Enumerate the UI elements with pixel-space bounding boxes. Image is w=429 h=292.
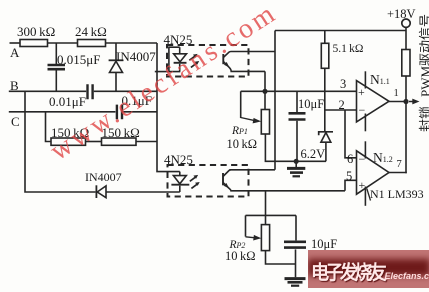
label 4N25 upper <box>164 32 193 48</box>
wire line B right segment <box>94 90 157 92</box>
wire 10uF-2 bottom <box>295 249 297 277</box>
N1.1 plus sign <box>358 85 365 100</box>
label 150k right <box>102 125 140 141</box>
wire terminal to rail <box>405 27 407 49</box>
label 10k lower <box>225 249 256 264</box>
wire pull-up down to N1.2 output <box>405 76 407 173</box>
resistor pull-up box <box>402 50 410 77</box>
terminal +18V circle <box>402 19 410 27</box>
N1.1 power stub bottom <box>364 114 366 132</box>
wire reference to pin 2 <box>325 109 357 111</box>
N1.2 power stub bottom <box>364 187 366 206</box>
wire Rp2 top terminal <box>265 191 267 225</box>
vertical label blocking <box>415 106 429 132</box>
opto2 emitter arrow <box>224 183 230 189</box>
wire node down to Rp1 <box>264 91 266 109</box>
wire diode row to LED2 <box>106 191 180 193</box>
N1.1 minus sign <box>359 103 366 118</box>
N1.2 power stub top <box>364 141 366 158</box>
pin 1 label <box>394 88 399 99</box>
diode IN4007 upper (cathode bar) <box>109 59 124 61</box>
PWM output arrow <box>409 101 413 103</box>
wire line C right segment <box>123 111 157 113</box>
LED1 anode lead <box>179 47 181 54</box>
diode IN4007 lower (triangle) <box>97 186 106 198</box>
label N1 LM393 <box>370 187 424 202</box>
N1 label leader line <box>367 189 371 201</box>
LED1 cathode bar <box>174 62 187 64</box>
wire Rp2 bottom to ground 2 <box>266 251 296 264</box>
label 10k upper <box>227 137 258 152</box>
LED1 light arrow 1 <box>189 56 195 61</box>
watermark logo box bottom right <box>308 250 429 288</box>
opto2 phototransistor base bar <box>222 173 224 185</box>
wire 5.1k bottom to zener <box>324 68 326 131</box>
label 300k <box>17 24 55 40</box>
Rp1 wiper arrow <box>241 118 255 121</box>
label IN4007 upper <box>116 49 156 65</box>
capacitor C 0.015uF plates <box>48 65 66 69</box>
label Rp2 <box>230 239 246 251</box>
watermark diagonal elecfans <box>45 0 283 166</box>
wire N1.1 output <box>389 101 406 103</box>
LED2 light arrow 1 <box>190 177 196 182</box>
LED2 cathode lead <box>179 186 181 192</box>
opto1 phototransistor base bar <box>222 54 224 64</box>
LED2 triangle <box>173 176 186 184</box>
node junction dot (opto1 emitter / pin3 net) <box>262 89 267 94</box>
wire pin 5 riser <box>345 180 357 191</box>
wire line B left segment <box>9 90 86 92</box>
LED1 cathode lead <box>179 64 181 72</box>
ground symbol 2 bars <box>285 277 306 280</box>
wire N1.2 output <box>389 172 406 175</box>
wire zener bottom to ground rail <box>325 142 327 161</box>
power rail +18V <box>275 30 406 32</box>
wire Rp2 wiper riser <box>245 215 247 236</box>
N1.2 plus sign <box>359 178 366 193</box>
wire LED1 left loop <box>169 47 180 71</box>
node junction dot (output node) <box>403 99 408 104</box>
wire 5.1k top to rail <box>324 31 326 44</box>
wire emitter1 drop to node <box>264 71 266 91</box>
wire 0.015uF top drop <box>55 43 57 64</box>
capacitor 0.01uF plates <box>88 84 93 99</box>
wire 150k row left riser <box>46 112 52 142</box>
wire diode D1 bottom drop to line B <box>115 72 117 91</box>
node B label <box>10 78 19 94</box>
pin 2 label <box>339 98 345 113</box>
wire 10uF-1 bottom to ground rail <box>296 121 298 162</box>
resistor 150k box 1 <box>51 138 86 145</box>
label IN4007 lower <box>85 170 122 185</box>
capacitor 10uF-1 plates <box>289 113 306 119</box>
wire 10uF-1 top <box>296 91 298 112</box>
label 0.01uF <box>49 94 86 110</box>
LED2 anode lead <box>179 172 181 176</box>
node A label <box>10 45 19 61</box>
wire vertical x25 from B down <box>25 91 95 192</box>
potentiometer Rp2 box <box>261 225 269 251</box>
node C label <box>11 114 20 130</box>
wire A between resistors <box>48 42 78 44</box>
node junction dot (ground node) <box>294 159 299 164</box>
label N1.2 <box>373 150 393 166</box>
resistor 24k box <box>78 40 106 47</box>
label 150k left <box>51 125 89 141</box>
wire diode D1 top drop <box>115 43 117 60</box>
wire 10uF-2 top <box>295 215 297 240</box>
capacitor 10uF-2 plates <box>284 242 306 248</box>
op-amp N1.2 triangle <box>357 151 390 194</box>
wire big vertical from A corner down to LED2 row <box>157 43 180 172</box>
ground symbol 1 bars <box>287 167 305 170</box>
wire Rp2 wiper jog <box>246 214 297 216</box>
wire between 150k resistors <box>86 141 102 143</box>
LED1 triangle <box>174 54 187 62</box>
label 5.1k <box>333 43 364 55</box>
wire Rp1 bottom to ground rail <box>265 134 326 161</box>
wire reference branch to pin 6 <box>345 110 357 158</box>
pin 3 label <box>340 77 346 92</box>
label 0.1uF <box>122 93 152 109</box>
wire LED1 bottom rail <box>155 71 181 73</box>
resistor 5.1k box <box>321 43 329 68</box>
N1.1 power stub top <box>364 71 366 88</box>
LED1 light arrow 2 <box>191 63 197 68</box>
label Rp1 <box>232 125 248 137</box>
label +18V <box>387 7 416 22</box>
opto2 collector <box>223 170 231 177</box>
LED2 cathode bar <box>171 184 189 186</box>
label 6.2V <box>301 147 326 162</box>
resistor 300k box <box>20 40 48 47</box>
capacitor 0.1uF plates <box>117 105 122 120</box>
potentiometer Rp1 box <box>261 110 269 135</box>
opto2 emitter <box>223 183 345 191</box>
label 0.015uF <box>57 52 100 68</box>
wire collector rail vertical x275 <box>274 31 276 170</box>
label 10uF lower <box>311 237 337 252</box>
opto1 emitter <box>223 62 265 72</box>
ground symbol 1 stem <box>295 161 297 167</box>
wire line C left segment <box>9 111 116 113</box>
resistor 150k box 2 <box>102 138 137 145</box>
pin 7 label <box>397 159 402 170</box>
pin 5 label <box>346 169 352 184</box>
wire 150k row to big vertical <box>136 141 157 143</box>
zener 6.2V triangle <box>321 133 331 143</box>
wire signal node to pin 3 <box>241 90 357 92</box>
optocoupler 4N25 dashed box 2 <box>168 165 249 197</box>
wire 0.015uF bottom drop to line B <box>55 71 57 92</box>
LED2 light arrow 2 <box>191 184 197 189</box>
label 10uF upper <box>298 97 324 112</box>
label 24k <box>75 24 107 40</box>
wire Rp1 wiper riser <box>240 91 242 118</box>
wire A to corner <box>106 42 158 44</box>
Rp2 wiper arrow <box>246 236 255 239</box>
zener 6.2V bar <box>319 132 333 136</box>
opto1 collector <box>223 52 275 58</box>
diode IN4007 lower (cathode bar) <box>95 185 97 198</box>
optocoupler 4N25 dashed box 1 <box>167 45 249 77</box>
diode IN4007 upper (triangle) <box>110 61 123 72</box>
N1.2 minus sign <box>359 152 366 167</box>
wire opto2 collector horizontal <box>230 169 276 171</box>
label N1.1 <box>370 72 390 88</box>
opto1 emitter arrow <box>224 62 230 68</box>
pin 6 label <box>347 152 353 167</box>
label 4N25 lower <box>164 152 193 168</box>
wire line A left stub <box>10 42 21 44</box>
op-amp N1.1 triangle <box>357 81 390 122</box>
vertical label PWM drive signal <box>415 14 429 97</box>
